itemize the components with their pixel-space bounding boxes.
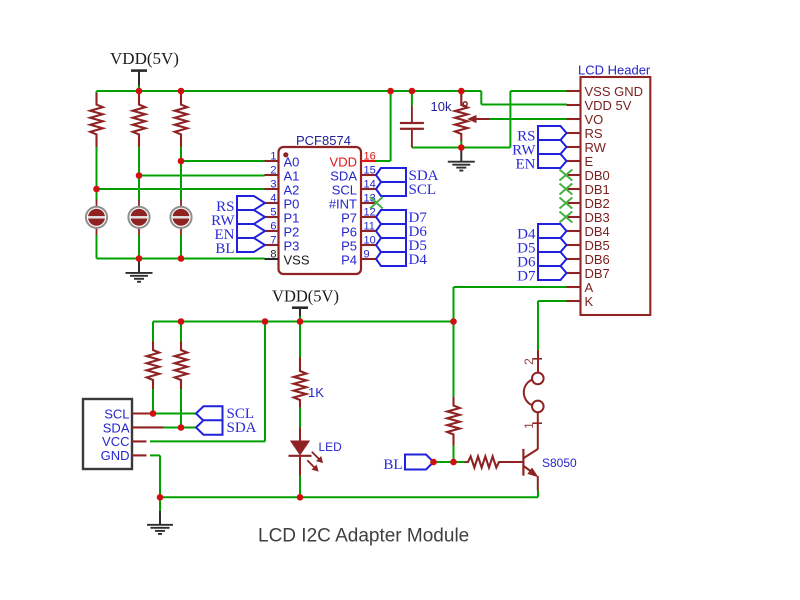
svg-text:P2: P2 [284, 225, 300, 240]
svg-text:DB7: DB7 [585, 266, 610, 281]
svg-text:P1: P1 [284, 211, 300, 226]
svg-text:1: 1 [522, 422, 536, 429]
svg-text:BL: BL [215, 241, 234, 257]
svg-text:3: 3 [270, 179, 276, 191]
svg-text:16: 16 [364, 151, 376, 163]
svg-text:D4: D4 [409, 252, 428, 268]
svg-text:SCL: SCL [409, 182, 437, 198]
svg-text:E: E [585, 154, 594, 169]
svg-text:14: 14 [364, 179, 376, 191]
svg-text:P5: P5 [341, 239, 357, 254]
svg-text:SDA: SDA [330, 169, 357, 184]
svg-text:A1: A1 [284, 169, 300, 184]
svg-text:VDD 5V: VDD 5V [585, 98, 632, 113]
svg-text:P7: P7 [341, 211, 357, 226]
svg-text:LED: LED [319, 440, 343, 454]
svg-text:2: 2 [522, 358, 536, 365]
svg-text:D7: D7 [517, 269, 536, 285]
svg-text:10: 10 [364, 235, 376, 247]
svg-text:RW: RW [585, 140, 607, 155]
svg-text:PCF8574: PCF8574 [296, 133, 351, 148]
svg-text:2: 2 [270, 165, 276, 177]
svg-text:A2: A2 [284, 183, 300, 198]
svg-text:VDD(5V): VDD(5V) [272, 287, 339, 306]
svg-text:SCL: SCL [332, 183, 357, 198]
svg-text:DB3: DB3 [585, 210, 610, 225]
svg-text:VCC: VCC [102, 434, 129, 449]
svg-text:VDD(5V): VDD(5V) [110, 49, 179, 68]
svg-text:DB4: DB4 [585, 224, 610, 239]
svg-text:SCL: SCL [104, 406, 129, 421]
svg-text:4: 4 [270, 193, 276, 205]
svg-text:DB1: DB1 [585, 182, 610, 197]
svg-text:8: 8 [270, 249, 276, 261]
svg-text:P4: P4 [341, 253, 357, 268]
svg-text:LCD Header: LCD Header [578, 63, 651, 78]
svg-text:VSS GND: VSS GND [585, 84, 644, 99]
svg-text:P0: P0 [284, 197, 300, 212]
svg-text:VDD: VDD [330, 155, 357, 170]
svg-text:13: 13 [364, 193, 376, 205]
svg-text:12: 12 [364, 207, 376, 219]
svg-text:LCD I2C Adapter Module: LCD I2C Adapter Module [258, 526, 469, 547]
svg-text:7: 7 [270, 235, 276, 247]
svg-text:5: 5 [270, 207, 276, 219]
svg-text:10k: 10k [431, 99, 452, 114]
svg-text:GND: GND [101, 448, 130, 463]
svg-text:VO: VO [585, 112, 604, 127]
svg-text:15: 15 [364, 165, 376, 177]
svg-text:DB2: DB2 [585, 196, 610, 211]
svg-text:SDA: SDA [227, 420, 257, 436]
svg-text:1: 1 [270, 151, 276, 163]
svg-text:BL: BL [383, 457, 402, 473]
svg-text:1K: 1K [308, 385, 324, 400]
svg-text:DB6: DB6 [585, 252, 610, 267]
svg-text:DB0: DB0 [585, 168, 610, 183]
svg-text:VSS: VSS [284, 253, 310, 268]
svg-text:P6: P6 [341, 225, 357, 240]
svg-text:EN: EN [516, 157, 536, 173]
svg-text:#INT: #INT [329, 197, 357, 212]
svg-text:K: K [585, 294, 594, 309]
svg-text:P3: P3 [284, 239, 300, 254]
svg-text:SDA: SDA [103, 420, 130, 435]
svg-text:A0: A0 [284, 155, 300, 170]
svg-text:RS: RS [585, 126, 603, 141]
svg-text:DB5: DB5 [585, 238, 610, 253]
svg-text:6: 6 [270, 221, 276, 233]
svg-text:11: 11 [364, 221, 375, 233]
svg-text:9: 9 [364, 249, 370, 261]
svg-text:S8050: S8050 [542, 456, 577, 470]
svg-text:A: A [585, 280, 594, 295]
